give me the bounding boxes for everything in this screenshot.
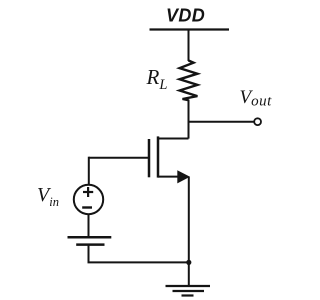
transistor M1 drain lead	[158, 138, 189, 140]
wire source to bottom rail	[188, 177, 190, 264]
wire gate corner down to source Vin	[88, 157, 90, 185]
ground symbol	[166, 285, 211, 287]
wire battery to bottom rail	[89, 245, 189, 263]
wire Vin to battery	[88, 214, 90, 236]
power rail VDD	[150, 28, 230, 30]
wire output node to terminal	[189, 121, 255, 123]
transistor M1 source lead	[158, 176, 180, 178]
resistor RL	[180, 61, 198, 101]
output terminal circle	[254, 118, 261, 125]
transistor M1 channel bar	[157, 136, 160, 177]
wire rail to resistor	[188, 30, 190, 62]
source Vin circle	[74, 185, 103, 214]
source Vin plus sign	[83, 191, 93, 193]
battery negative plate	[76, 243, 104, 246]
transistor M1 gate bar	[148, 139, 151, 177]
battery positive plate	[68, 236, 112, 239]
wire bottom node to ground	[188, 262, 190, 286]
wire gate lead	[89, 157, 150, 159]
transistor M1 source arrow	[177, 170, 190, 183]
junction dot bottom node	[186, 260, 191, 265]
source Vin minus sign	[82, 206, 92, 208]
wire resistor to drain node	[188, 100, 190, 139]
svg-text:VDD: VDD	[166, 5, 205, 25]
